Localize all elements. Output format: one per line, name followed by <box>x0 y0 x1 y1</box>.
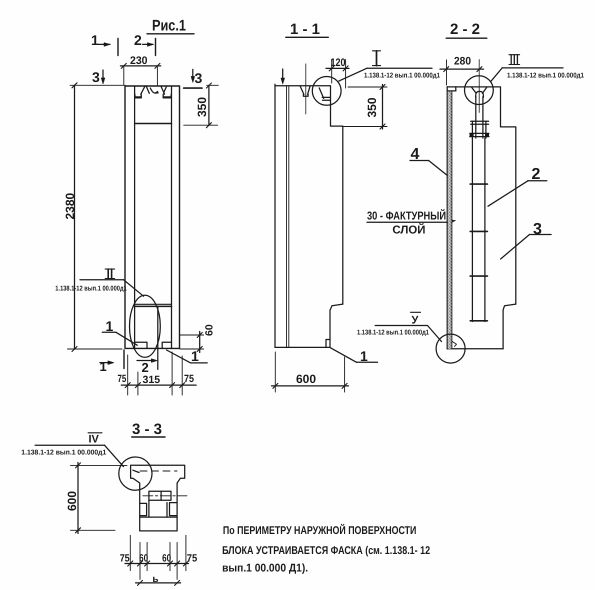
svg-text:БЛОКА УСТРАИВАЕТСЯ ФАСКА (см.: БЛОКА УСТРАИВАЕТСЯ ФАСКА (см. 1.138.1- 1… <box>222 545 430 557</box>
svg-text:IV: IV <box>89 434 100 446</box>
svg-text:1: 1 <box>91 32 99 48</box>
detail circle IV <box>119 457 152 490</box>
loop rod inner pair <box>476 97 483 138</box>
svg-text:1.138.1-12 вып.1 00.000д1: 1.138.1-12 вып.1 00.000д1 <box>357 330 429 337</box>
section 1-1 outline <box>275 84 343 347</box>
svg-text:60: 60 <box>139 553 148 565</box>
section mark 1 top <box>91 32 118 56</box>
section mark 2 top <box>134 32 156 56</box>
svg-text:вып.1 00.000 Д1).: вып.1 00.000 Д1). <box>222 563 308 575</box>
svg-text:1 - 1: 1 - 1 <box>290 21 320 38</box>
dimension 2380 <box>63 83 125 352</box>
title 1-1 <box>286 21 329 38</box>
second dim line with label 4 <box>136 574 181 585</box>
svg-text:350: 350 <box>195 97 209 117</box>
title 3-3 <box>132 421 165 438</box>
section 1-1 bottom foot <box>326 340 330 348</box>
svg-text:1.138.1-12 вып.1 00.000д1: 1.138.1-12 вып.1 00.000д1 <box>55 286 127 293</box>
dimension row 75 60 60 75 on 3-3 <box>120 535 198 579</box>
section mark 3 left <box>92 69 105 85</box>
section 3-3 horizontal axis line <box>143 495 187 497</box>
dimension 60 right <box>180 324 216 352</box>
svg-text:230: 230 <box>130 55 148 67</box>
callout 4 <box>410 146 451 178</box>
title 2-2 <box>446 21 487 38</box>
svg-text:600: 600 <box>296 372 316 386</box>
svg-text:1: 1 <box>100 359 107 374</box>
dimension row 75 315 75 <box>118 352 197 395</box>
detail marker V with leader <box>357 312 442 341</box>
anchor frame <box>470 121 489 138</box>
note paragraph <box>222 523 430 574</box>
dimension 350 right of fig.1 <box>184 83 219 128</box>
svg-text:60: 60 <box>204 324 216 336</box>
detail ellipse II <box>130 295 161 357</box>
fig.1 right foot <box>162 342 171 348</box>
fig.1 bottom section double line <box>135 304 172 306</box>
detail I inner slot lines <box>319 88 330 100</box>
detail circle V bottom of 2-2 <box>436 334 465 363</box>
detail marker IV with leader <box>21 433 123 467</box>
dimension 120 <box>326 57 349 88</box>
lifting loop arch <box>476 91 484 97</box>
callout 3 <box>501 221 551 259</box>
section 3-3 flange <box>131 465 185 531</box>
svg-text:2380: 2380 <box>63 192 77 219</box>
svg-text:1.138.1-12 вып.1 00.000д1: 1.138.1-12 вып.1 00.000д1 <box>21 450 106 457</box>
dimension 280 <box>440 56 484 85</box>
svg-text:ь: ь <box>152 574 158 585</box>
svg-text:30 - ФАКТУРНЫЙ: 30 - ФАКТУРНЫЙ <box>367 209 446 223</box>
svg-text:75: 75 <box>120 553 130 565</box>
callout 2 <box>488 166 547 206</box>
section 2-2 outline <box>447 87 516 349</box>
svg-text:По ПЕРИМЕТРУ НАРУЖНОЙ ПОВЕРХНО: По ПЕРИМЕТРУ НАРУЖНОЙ ПОВЕРХНОСТИ <box>223 523 417 537</box>
title Рис.1 <box>147 18 194 35</box>
svg-text:1.138.1-12 вып.1 00.000д1: 1.138.1-12 вып.1 00.000д1 <box>364 73 440 80</box>
svg-text:75: 75 <box>184 373 194 385</box>
dimension 350 on 1-1 <box>342 85 387 130</box>
fig.1 inner line at 350 level <box>135 123 172 125</box>
detail marker II <box>55 269 143 296</box>
detail marker III with leader <box>491 55 584 82</box>
label 30-фактурный слой <box>367 209 456 237</box>
svg-text:СЛОЙ: СЛОЙ <box>392 223 425 237</box>
svg-text:У: У <box>412 315 419 327</box>
section 1-1 top slot funnel <box>300 86 310 96</box>
svg-text:3: 3 <box>92 69 100 85</box>
svg-text:350: 350 <box>365 97 379 117</box>
fig.1 left foot <box>135 342 147 348</box>
section 1-1 slot centerline <box>305 64 307 114</box>
section 3 cut arrow on 1-1 <box>281 69 285 84</box>
svg-text:2 - 2: 2 - 2 <box>450 21 480 38</box>
section 2-2 facing layer strip <box>447 87 456 349</box>
section mark 2 bottom <box>137 359 157 375</box>
callout 1 lower-left of fig.1 <box>102 318 137 345</box>
svg-text:1: 1 <box>106 318 114 334</box>
svg-text:3: 3 <box>195 70 203 86</box>
svg-text:315: 315 <box>143 374 161 386</box>
svg-text:75: 75 <box>187 553 198 565</box>
section mark 1 bottom <box>100 350 125 374</box>
detail circle I <box>312 77 341 106</box>
dimension 230 <box>120 55 160 85</box>
svg-text:2: 2 <box>134 32 142 48</box>
svg-text:2: 2 <box>142 360 149 375</box>
dimension 600 on 3-3 <box>65 463 127 534</box>
svg-text:1: 1 <box>360 348 368 364</box>
svg-text:60: 60 <box>162 553 171 565</box>
svg-text:3 - 3: 3 - 3 <box>132 421 162 438</box>
fig.1 bottom middle vertical line and section 2 tick <box>157 306 159 369</box>
svg-text:3: 3 <box>533 221 542 238</box>
dimension 600 on 1-1 <box>272 352 349 392</box>
callout 1 lower-right of fig.1 <box>167 348 208 364</box>
detail marker I with leader <box>339 51 440 81</box>
svg-text:280: 280 <box>454 56 471 68</box>
rod lower pair with crossbars <box>470 138 487 322</box>
svg-text:Рис.1: Рис.1 <box>152 18 186 35</box>
svg-text:1.138.1-12 вып.1 00.000д1: 1.138.1-12 вып.1 00.000д1 <box>507 73 584 80</box>
callout 1 on 1-1 bottom <box>331 348 378 364</box>
section 3-3 inner cavity boxes <box>140 491 177 517</box>
fig.1 block outline <box>125 86 180 348</box>
svg-text:75: 75 <box>118 373 127 385</box>
loop centerline <box>478 60 480 113</box>
section mark 3 right <box>184 69 203 88</box>
svg-text:600: 600 <box>65 491 79 511</box>
section 1-1 facing layer double line <box>287 86 289 348</box>
fig.1 top lifting notch detail <box>135 86 171 97</box>
detail circle III <box>465 76 494 105</box>
